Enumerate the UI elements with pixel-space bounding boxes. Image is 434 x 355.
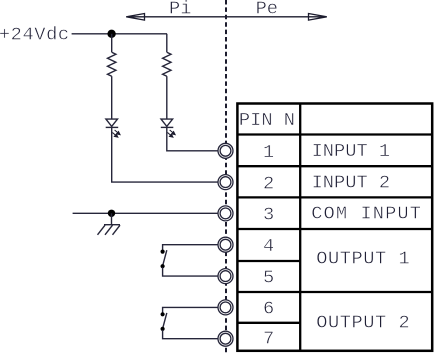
wire R2 to LED2 xyxy=(166,76,168,119)
svg-text:OUTPUT 1: OUTPUT 1 xyxy=(316,248,410,270)
LED D1 emission arrows xyxy=(112,130,120,137)
svg-text:INPUT 2: INPUT 2 xyxy=(312,171,391,193)
svg-text:7: 7 xyxy=(263,327,274,349)
svg-text:6: 6 xyxy=(263,298,274,320)
LED D1 triangle xyxy=(106,119,118,126)
terminal pin 5 xyxy=(218,269,233,284)
ground (chassis) xyxy=(98,225,121,235)
contact K1 blade xyxy=(163,250,167,266)
svg-text:5: 5 xyxy=(263,266,274,288)
table row line header bottom xyxy=(237,133,432,135)
contact K1 lower dot xyxy=(161,264,165,268)
wire R1 to LED1 xyxy=(111,76,113,119)
LED D1 cathode bar xyxy=(106,126,119,128)
svg-text:COM INPUT: COM INPUT xyxy=(311,203,422,225)
terminal pin 3 xyxy=(218,206,233,221)
wire pin6 to contact K2 xyxy=(163,307,218,313)
svg-text:OUTPUT 2: OUTPUT 2 xyxy=(316,312,410,334)
contact K2 blade xyxy=(163,313,167,329)
wire contact K2 to pin7 xyxy=(163,330,218,339)
terminal pin 6 xyxy=(218,300,233,315)
ground stem xyxy=(111,213,113,224)
svg-text:INPUT 1: INPUT 1 xyxy=(312,140,391,162)
wire COM input to pin3 xyxy=(73,212,218,214)
wire R2 top lead xyxy=(166,34,168,52)
table row line 6/7 left column only xyxy=(237,322,300,324)
wire R1 top lead xyxy=(111,34,113,52)
wire contact K1 to pin5 xyxy=(163,267,218,276)
junction dot on +24V bus xyxy=(107,30,115,38)
junction dot COM xyxy=(108,210,115,217)
svg-text:4: 4 xyxy=(263,235,274,257)
svg-text:+24Vdc: +24Vdc xyxy=(0,24,70,46)
terminal pin 2 xyxy=(218,175,233,190)
wire LED1 to pin2 xyxy=(112,127,218,182)
svg-text:Pe: Pe xyxy=(256,0,278,20)
Pi/Pe arrow shaft xyxy=(126,16,326,18)
terminal pin 4 xyxy=(218,237,233,252)
svg-text:PIN N: PIN N xyxy=(239,109,295,131)
table row line 3/4 xyxy=(237,228,432,230)
svg-text:Pi: Pi xyxy=(169,0,191,20)
terminal pin 7 xyxy=(218,331,233,346)
wire LED2 to pin1 xyxy=(167,127,218,150)
table row line 4/5 left column only xyxy=(237,260,300,262)
contact K2 upper dot xyxy=(161,312,165,316)
wire pin4 to contact K1 xyxy=(163,245,218,251)
table row line 2/3 xyxy=(237,196,432,198)
contact K1 upper dot xyxy=(161,250,165,254)
terminal pin 1 xyxy=(218,143,233,158)
svg-text:2: 2 xyxy=(263,172,274,194)
wire +24Vdc bus xyxy=(72,33,167,35)
contact K2 lower dot xyxy=(161,327,165,331)
table row line 1/2 xyxy=(237,165,432,167)
dashed panel boundary line xyxy=(225,0,227,355)
LED D2 cathode bar xyxy=(161,126,174,128)
LED D2 emission arrows xyxy=(168,130,176,137)
table row line 5/6 xyxy=(237,291,432,293)
table column separator xyxy=(299,104,301,351)
left arrowhead (Pi) xyxy=(126,14,144,21)
svg-text:1: 1 xyxy=(263,141,274,163)
resistor R1 xyxy=(108,52,116,76)
table outer frame xyxy=(237,104,432,351)
right arrowhead (Pe) xyxy=(309,14,327,21)
LED D2 triangle xyxy=(161,119,173,126)
resistor R2 xyxy=(163,52,171,76)
svg-text:3: 3 xyxy=(263,204,274,226)
